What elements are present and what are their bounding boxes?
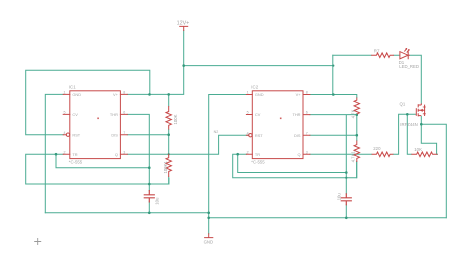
svg-text:IC1: IC1: [69, 85, 76, 90]
svg-text:8: 8: [306, 91, 308, 95]
svg-text:7: 7: [123, 131, 125, 135]
svg-text:1: 1: [247, 91, 249, 95]
svg-text:CV: CV: [255, 112, 261, 117]
svg-text:1: 1: [64, 91, 66, 95]
svg-text:100K1: 100K1: [163, 160, 168, 173]
svg-text:10u: 10u: [155, 197, 160, 205]
svg-text:CV: CV: [72, 112, 78, 117]
svg-text:3: 3: [306, 150, 308, 154]
svg-text:2: 2: [247, 150, 249, 154]
svg-text:IRFZ44N: IRFZ44N: [400, 122, 417, 127]
svg-text:Q: Q: [297, 152, 300, 157]
svg-text:LED_RED: LED_RED: [399, 64, 419, 69]
svg-text:5: 5: [64, 111, 66, 115]
svg-text:RST: RST: [72, 132, 80, 137]
svg-text:4.7K: 4.7K: [351, 109, 356, 118]
svg-text:2: 2: [64, 150, 66, 154]
svg-text:THR: THR: [293, 112, 301, 117]
svg-text:R7: R7: [374, 48, 380, 53]
svg-text:GND: GND: [72, 92, 81, 97]
svg-text:5: 5: [247, 111, 249, 115]
svg-text:THR: THR: [110, 112, 118, 117]
svg-text:TR: TR: [255, 152, 260, 157]
svg-text:RST: RST: [255, 133, 263, 138]
svg-text:6: 6: [123, 111, 125, 115]
svg-text:12V+: 12V+: [177, 20, 190, 26]
svg-text:4.7K1: 4.7K1: [351, 151, 356, 163]
svg-text:3: 3: [123, 150, 125, 154]
svg-text:10K: 10K: [414, 147, 422, 152]
svg-text:220: 220: [373, 146, 381, 151]
svg-text:*C-555: *C-555: [69, 159, 83, 164]
svg-text:4: 4: [247, 131, 249, 135]
svg-text:Q1: Q1: [400, 101, 406, 106]
svg-text:*C-555: *C-555: [251, 159, 265, 164]
svg-text:N2: N2: [214, 130, 219, 134]
svg-text:GND: GND: [255, 92, 264, 97]
svg-text:V+: V+: [113, 92, 119, 97]
svg-text:4: 4: [64, 131, 66, 135]
svg-text:7: 7: [306, 131, 308, 135]
svg-text:100K: 100K: [173, 114, 178, 124]
svg-text:6: 6: [306, 111, 308, 115]
svg-text:10u: 10u: [337, 193, 342, 201]
svg-text:GND: GND: [204, 240, 214, 245]
svg-text:IC2: IC2: [251, 85, 258, 90]
svg-text:DIS: DIS: [111, 132, 118, 137]
svg-text:V+: V+: [296, 92, 302, 97]
svg-text:Q: Q: [115, 152, 118, 157]
svg-text:8: 8: [123, 91, 125, 95]
svg-text:TR: TR: [72, 152, 77, 157]
svg-text:DIS: DIS: [294, 133, 301, 138]
